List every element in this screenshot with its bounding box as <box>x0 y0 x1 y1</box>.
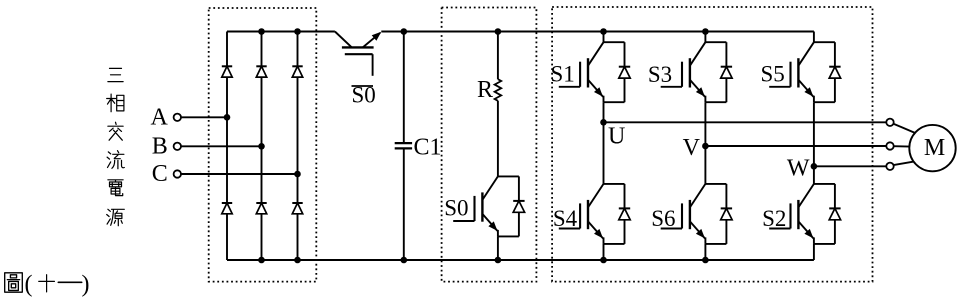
wire S6 emitter to bottom bus <box>704 244 706 260</box>
svg-text:S3: S3 <box>648 62 672 87</box>
node top bus leg 2 <box>258 28 265 35</box>
wire C1 lower leg <box>403 148 405 260</box>
diode D2 (leg2 upper) <box>256 65 266 67</box>
capacitor C1 <box>395 143 412 148</box>
svg-text:V: V <box>683 135 701 161</box>
wire rectifier leg 3 <box>297 32 299 261</box>
svg-text:S0: S0 <box>444 196 468 221</box>
transistor S4 <box>559 184 604 244</box>
wire V terminal to motor <box>894 145 911 147</box>
svg-text:M: M <box>924 135 945 161</box>
wire S0 emitter to bottom bus <box>497 236 499 260</box>
wire node V to S6 <box>704 146 706 184</box>
transistor S5 <box>769 42 814 102</box>
wire DC+ top bus (S0bar to inverter) <box>381 31 814 33</box>
node bottom bus S6 <box>702 257 709 264</box>
freewheel diode of S2 <box>814 184 841 244</box>
wire U terminal to motor <box>893 124 915 134</box>
node top bus S1 <box>600 28 607 35</box>
wire W terminal to motor <box>893 161 916 165</box>
brake chopper enclosure (dotted box) <box>442 8 537 282</box>
freewheel diode of S1 <box>604 42 631 102</box>
transistor S0-bar (series IGBT) <box>335 32 381 76</box>
node W <box>811 163 818 170</box>
diode D3 (leg3 upper) <box>292 65 302 67</box>
node DC+ at chopper <box>495 28 502 35</box>
terminal C <box>174 170 181 177</box>
freewheel diode of S4 <box>604 184 631 244</box>
terminal W <box>886 163 893 170</box>
wire S1 collector <box>603 32 605 43</box>
node phase B junction <box>258 143 265 150</box>
wire phase A input <box>181 116 227 118</box>
wire S3 emitter to node V <box>704 102 706 146</box>
svg-text:U: U <box>608 124 625 150</box>
diode D6 (leg3 lower) <box>292 202 302 204</box>
svg-text:(: ( <box>25 272 33 298</box>
wire S2 emitter to bottom bus <box>813 244 815 260</box>
terminal U <box>886 119 893 126</box>
wire S1 emitter to node U <box>603 102 605 122</box>
wire S5 collector <box>813 32 815 43</box>
motor M <box>909 125 955 171</box>
node top bus S3 <box>702 28 709 35</box>
vertical caption 三相交流電源 (three-phase AC source) <box>107 68 125 225</box>
node bottom bus leg 2 <box>258 257 265 264</box>
terminal A <box>174 114 181 121</box>
wire DC- bottom bus <box>227 259 814 261</box>
node bottom bus leg 3 <box>294 257 301 264</box>
terminal B <box>174 143 181 150</box>
svg-text:S1: S1 <box>551 62 575 87</box>
svg-text:R: R <box>477 77 493 103</box>
wire V rail <box>705 145 886 147</box>
transistor S3 <box>661 42 706 102</box>
diode D4 (leg1 lower) <box>222 202 232 204</box>
freewheel diode of S5 <box>814 42 841 102</box>
label S0-bar (S0 with overline) <box>352 83 376 108</box>
resistor R <box>495 79 502 101</box>
diode D5 (leg2 lower) <box>256 202 266 204</box>
inverter enclosure (dotted box) <box>552 7 872 282</box>
node DC- at chopper <box>495 257 502 264</box>
node V <box>702 143 709 150</box>
node top bus leg 3 <box>294 28 301 35</box>
wire S3 collector <box>704 32 706 43</box>
node phase C junction <box>294 171 301 178</box>
terminal V <box>886 142 893 149</box>
wire chopper upper leg <box>497 32 499 80</box>
wire DC+ top bus (rectifier to chopper transistor) <box>227 31 335 33</box>
wire C1 upper leg <box>403 32 405 144</box>
node phase A junction <box>224 114 231 121</box>
node DC+ at C1 <box>401 28 408 35</box>
wire U rail <box>604 121 887 123</box>
svg-text:S5: S5 <box>761 62 785 87</box>
svg-text:A: A <box>150 105 168 131</box>
freewheel diode of S6 <box>705 184 732 244</box>
wire S5 emitter to node W <box>813 102 815 166</box>
svg-text:W: W <box>787 155 810 181</box>
wire rectifier leg 2 <box>261 32 263 261</box>
wire R to S0 <box>497 101 499 177</box>
figure caption 圖(十一) <box>5 272 90 298</box>
freewheel diode of S3 <box>705 42 732 102</box>
svg-text:S2: S2 <box>762 206 786 231</box>
svg-text:B: B <box>152 134 168 160</box>
transistor S6 <box>661 184 706 244</box>
wire W rail <box>814 165 886 167</box>
node DC- at C1 <box>401 257 408 264</box>
svg-text:S4: S4 <box>553 206 578 231</box>
rectifier enclosure (dotted box) <box>209 8 317 282</box>
node U <box>600 119 607 126</box>
wire S4 emitter to bottom bus <box>603 244 605 260</box>
svg-text:C: C <box>152 161 168 187</box>
transistor S2 <box>769 184 814 244</box>
svg-text:S6: S6 <box>651 206 675 231</box>
svg-text:C1: C1 <box>414 135 442 161</box>
wire phase B input <box>181 145 262 147</box>
node bottom bus S4 <box>600 257 607 264</box>
transistor S0 (brake chopper IGBT) <box>453 176 498 236</box>
svg-text:): ) <box>82 272 90 298</box>
transistor S1 <box>559 42 604 102</box>
diode D1 (leg1 upper) <box>222 65 232 67</box>
wire rectifier leg 1 <box>226 32 228 261</box>
wire phase C input <box>181 173 298 175</box>
wire node U to S4 <box>603 122 605 184</box>
freewheel diode of S0 <box>498 176 525 236</box>
svg-text:S0: S0 <box>352 83 376 108</box>
wire node W to S2 <box>813 166 815 184</box>
